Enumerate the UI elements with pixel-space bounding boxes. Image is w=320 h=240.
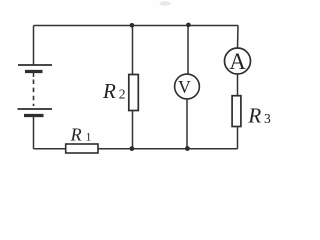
- wire (voltmeter branch, top): [187, 26, 189, 75]
- svg-text:R: R: [247, 103, 261, 127]
- svg-text:2: 2: [119, 87, 126, 102]
- wire (left vertical, battery bottom lead): [33, 116, 35, 149]
- node (top junction, voltmeter branch): [186, 23, 191, 28]
- node (bottom junction, R2 branch): [130, 146, 135, 151]
- wire (bottom bus, right of R1): [98, 148, 238, 150]
- wire (voltmeter branch, bottom): [186, 99, 188, 149]
- label R1: [70, 125, 92, 145]
- wire (left vertical, battery top lead): [33, 26, 35, 66]
- ammeter A: [225, 48, 251, 74]
- resistor R2: [129, 75, 139, 111]
- wire (ammeter to R3): [237, 74, 239, 96]
- svg-text:A: A: [229, 49, 246, 74]
- label R3: [247, 103, 271, 127]
- svg-text:1: 1: [86, 132, 92, 144]
- wire (right vertical, top bus to ammeter): [237, 26, 240, 49]
- wire (R2 branch, bottom): [132, 111, 134, 149]
- wire (R2 branch, top): [132, 26, 134, 75]
- svg-text:R: R: [102, 79, 116, 103]
- wire (top bus): [34, 25, 239, 27]
- battery: [18, 65, 53, 116]
- voltmeter V: [175, 74, 200, 99]
- node (bottom junction, voltmeter branch): [185, 146, 190, 151]
- svg-text:V: V: [178, 77, 191, 97]
- label R2: [102, 79, 126, 103]
- resistor R1: [66, 144, 98, 153]
- resistor R3: [232, 96, 241, 127]
- node (top junction, R2 branch): [130, 23, 135, 28]
- wire (R3 to bottom bus): [237, 127, 239, 149]
- svg-text:R: R: [70, 125, 82, 145]
- svg-text:3: 3: [264, 111, 271, 126]
- wire (bottom bus, left of R1): [34, 148, 67, 150]
